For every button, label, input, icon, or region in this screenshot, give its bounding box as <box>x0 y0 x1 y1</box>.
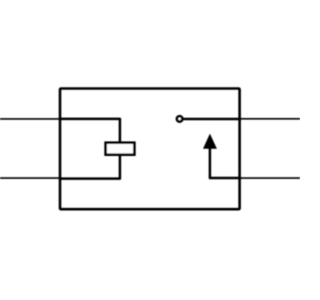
arrowhead (up) <box>203 134 217 149</box>
wire left input 2 <box>0 177 60 179</box>
wire right output 1 <box>240 118 300 120</box>
wire node to right edge <box>181 118 241 121</box>
wire inner crystal loop <box>60 119 120 179</box>
wire left input 1 <box>0 118 60 120</box>
component body U1 (outer box) <box>60 89 240 210</box>
node terminal (open dot) <box>177 116 182 121</box>
wire right output 2 <box>240 177 300 179</box>
wire arrow branch <box>210 146 241 178</box>
crystal element X1 <box>106 143 135 155</box>
